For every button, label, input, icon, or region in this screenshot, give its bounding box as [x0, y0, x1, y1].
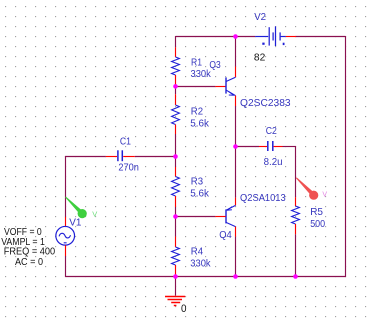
capacitor C1 [106, 150, 135, 161]
value label C2 8.2u [264, 125, 283, 168]
wire left rail upper (C1 corner down to V1) [65, 156, 67, 217]
wire Q4 collector to bottom bus [235, 237, 237, 277]
source V1 (VSIN) [56, 217, 75, 256]
junction at R5 / bottom bus [293, 274, 298, 279]
svg-text:330k: 330k [190, 258, 211, 270]
voltage probe red (on output node) [296, 177, 318, 199]
svg-text:AC = 0: AC = 0 [15, 256, 43, 268]
value label R4 330k [190, 245, 211, 269]
wire bottom bus [66, 276, 347, 278]
value label R2 5.6k [190, 105, 209, 129]
value labels V1 parameters [1, 226, 55, 268]
svg-text:0: 0 [181, 303, 187, 315]
value label R1 330k [191, 56, 212, 80]
wire C2 right horizontal to corner [283, 146, 297, 148]
capacitor C2 [259, 141, 283, 151]
svg-text:R1: R1 [191, 56, 202, 68]
wire Q3 base horizontal [176, 86, 216, 88]
value label C1 270n [118, 136, 139, 174]
value label R5 500 [310, 206, 325, 230]
resistor R3 [172, 167, 180, 207]
wire V2 junction down to Q3 collector [235, 37, 237, 67]
wire left rail lower (V1 to bottom bus) [65, 256, 67, 277]
svg-text:500: 500 [310, 218, 325, 230]
wire ground stem [175, 277, 177, 296]
wire C2 left horizontal [236, 146, 260, 148]
wire between R2 and R3 [175, 134, 177, 167]
svg-text:Q2SC2383: Q2SC2383 [240, 97, 291, 109]
svg-text:V: V [92, 209, 97, 218]
junction at ground / R4 [173, 274, 178, 279]
transistor Q3 (NPN Q2SC2383) [215, 67, 235, 106]
junction at R3/R4/Q4 base [173, 214, 178, 219]
svg-text:5.6k: 5.6k [190, 188, 209, 200]
wire between R1 and R2 [175, 84, 177, 94]
wire right rail vertical [345, 36, 347, 277]
svg-text:V1: V1 [69, 217, 81, 229]
wire C1 right horizontal [135, 156, 176, 158]
wire between R3 and R4 [175, 207, 177, 237]
svg-text:270n: 270n [118, 162, 139, 174]
svg-text:C2: C2 [266, 125, 277, 137]
wire resistor column top corner [175, 36, 177, 47]
svg-text:V: V [322, 192, 327, 199]
svg-text:82: 82 [254, 51, 266, 63]
svg-text:R3: R3 [191, 175, 203, 187]
wire top bus left segment (junction to V2) [176, 36, 256, 38]
wire Q4 base horizontal [176, 216, 216, 218]
ground 0 symbol [165, 297, 185, 306]
wire C1 left horizontal [65, 156, 106, 158]
resistor R4 [172, 237, 180, 275]
junction at C2 branch [233, 144, 238, 149]
svg-text:C1: C1 [120, 136, 131, 148]
resistor R5 [292, 197, 300, 234]
resistor R1 [172, 47, 180, 84]
svg-text:Q2SA1013: Q2SA1013 [240, 192, 286, 204]
wire R5 branch vertical upper [295, 146, 297, 197]
resistor R2 [172, 94, 180, 134]
value label R3 5.6k [190, 175, 209, 199]
svg-text:V2: V2 [254, 11, 266, 23]
svg-text:Q3: Q3 [209, 59, 220, 71]
svg-text:R2: R2 [191, 105, 203, 117]
junction at Q4 collector / bottom bus [233, 274, 238, 279]
svg-text:R5: R5 [310, 206, 323, 218]
junction at R1/R2/Q3 base [173, 84, 178, 89]
svg-text:330k: 330k [191, 68, 212, 80]
svg-text:R4: R4 [191, 245, 203, 257]
transistor Q4 (PNP Q2SA1013) [215, 198, 235, 237]
wire Q3 emitter to Q4 emitter vertical [235, 106, 237, 198]
wire top bus right segment (V2 to right rail) [296, 36, 346, 38]
junction at V2 top bus [233, 34, 238, 39]
junction at C1/R column [173, 154, 178, 159]
battery V2 [255, 26, 296, 46]
svg-text:5.6k: 5.6k [190, 118, 209, 130]
svg-text:8.2u: 8.2u [264, 156, 283, 168]
svg-text:Q4: Q4 [219, 229, 232, 241]
voltage probe green (on V1 node) [65, 197, 87, 219]
wire R5 branch vertical lower [295, 234, 297, 276]
